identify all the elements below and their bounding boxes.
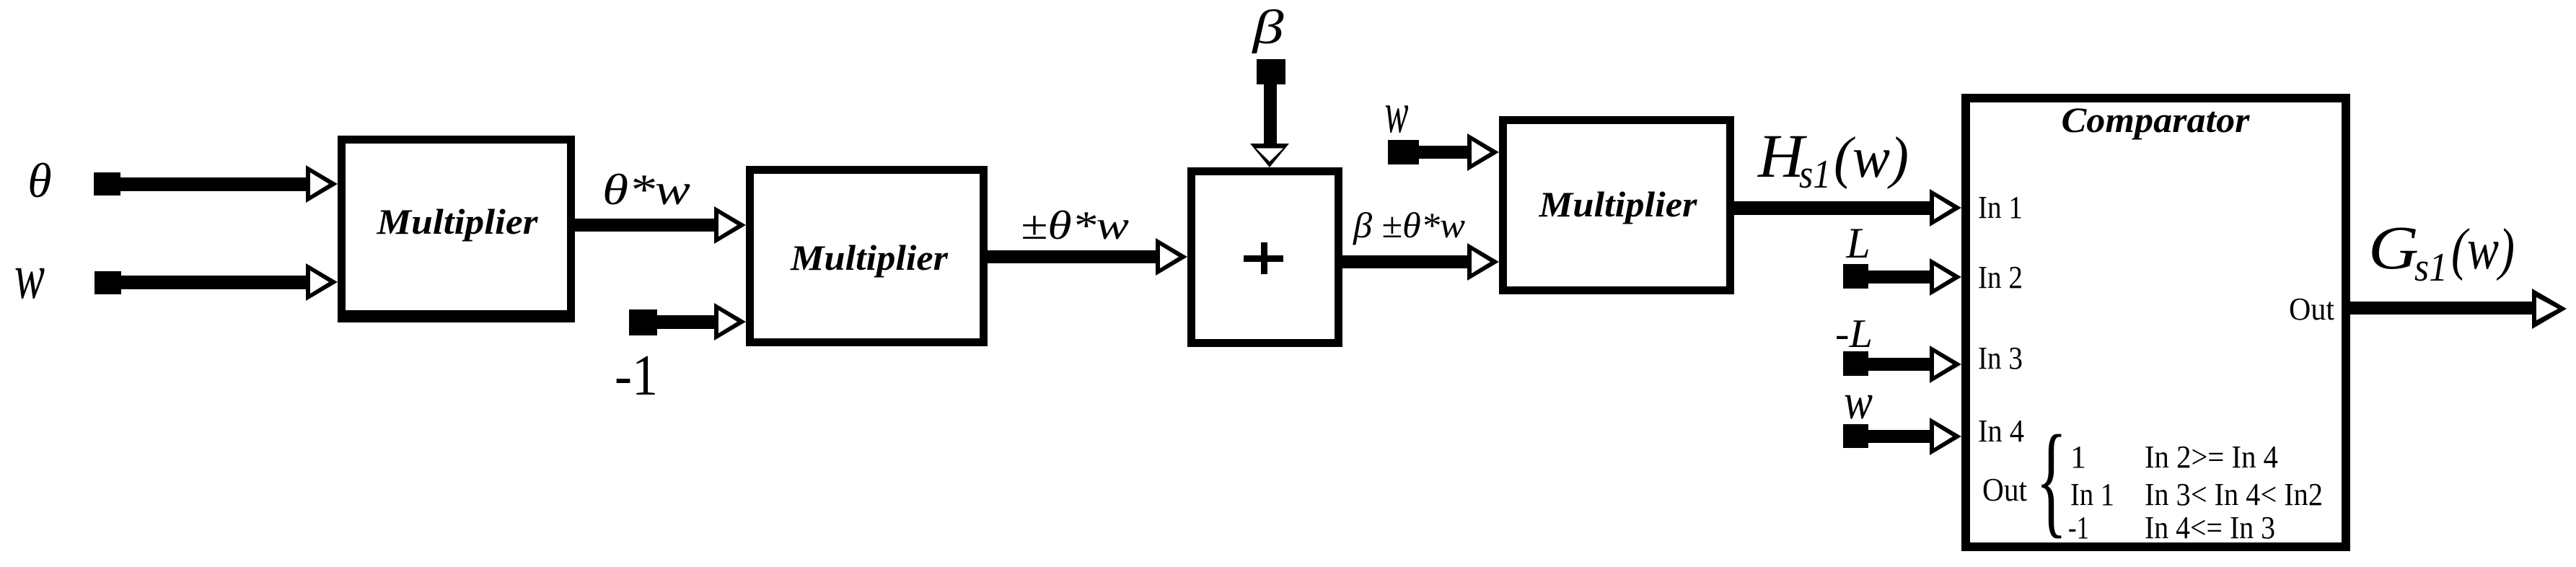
wire M3 output Hs1(w) (1730, 201, 1935, 215)
svg-text:w: w (1844, 374, 1873, 430)
comparator truth table Out label (1982, 471, 2027, 508)
node w (third) input port square (1843, 424, 1868, 448)
node beta input port square (1257, 59, 1285, 84)
svg-text:In 2>= In 4: In 2>= In 4 (2145, 439, 2278, 475)
multiplier M1 bottom edge (338, 310, 575, 322)
wire -L to comparator In 3 (1855, 358, 1931, 371)
svg-text:Comparator: Comparator (2062, 100, 2251, 140)
node w (second) input port square (1388, 140, 1419, 164)
label beta plus-minus theta*w (1353, 205, 1465, 245)
svg-text:Multiplier: Multiplier (376, 201, 538, 242)
svg-text:w: w (1385, 82, 1409, 145)
truth table row 3 condition (2145, 510, 2275, 545)
label Gs1(w) (2368, 213, 2515, 290)
multiplier M2 block (750, 170, 984, 343)
wire beta down to adder (1264, 72, 1277, 148)
arrowhead w into comparator In 4 (1930, 418, 1961, 455)
wire L to comparator In 2 (1855, 271, 1931, 283)
arrowhead plus-minus theta*w into adder (1156, 238, 1187, 276)
svg-text:In 3: In 3 (1978, 340, 2023, 376)
node -1 input port square (629, 309, 657, 335)
arrowhead -L into comparator In 3 (1930, 346, 1961, 383)
pin label Out (2289, 291, 2334, 327)
svg-text:G: G (2368, 213, 2419, 282)
truth table row 1 value (2070, 439, 2086, 475)
wire theta to multiplier M1 (107, 177, 307, 191)
arrowhead theta into M1 (306, 165, 338, 203)
node w (third) label (1844, 374, 1873, 430)
arrowhead L into comparator In 2 (1930, 258, 1961, 296)
wire w to comparator In 4 (1855, 430, 1931, 443)
svg-text:In 4<= In 3: In 4<= In 3 (2145, 510, 2275, 545)
svg-text:In 1: In 1 (1978, 190, 2023, 225)
pin label In 3 (1978, 340, 2023, 376)
wire M1 output theta*w (570, 219, 718, 232)
arrowhead beta into adder (down) (1250, 144, 1289, 167)
arrowhead w into M1 (306, 263, 338, 301)
arrowhead theta*w into M2 (714, 206, 746, 244)
svg-text:-L: -L (1835, 312, 1873, 356)
svg-text:Multiplier: Multiplier (1538, 184, 1697, 224)
arrowhead adder output into M3 (1467, 243, 1499, 281)
label -1 (615, 344, 658, 408)
wire comparator output Gs1(w) (2346, 302, 2536, 315)
svg-text:In 3< In 4< In2: In 3< In 4< In2 (2145, 477, 2323, 512)
svg-text:1: 1 (2070, 439, 2086, 475)
node w (second) label (1385, 82, 1409, 145)
arrowhead Hs1(w) into comparator In 1 (1930, 189, 1961, 227)
label Hs1(w) (1757, 121, 1909, 197)
svg-text:In 1: In 1 (2070, 477, 2114, 512)
node -L label (1835, 312, 1873, 356)
comparator U1 block (1966, 98, 2346, 547)
pin label In 4 (1978, 413, 2024, 449)
node L input port square (1843, 264, 1868, 289)
svg-text:(w): (w) (2451, 218, 2515, 281)
svg-text:w: w (14, 241, 45, 312)
wire M2 output plus-minus theta*w (983, 250, 1161, 263)
node beta label (1251, 1, 1284, 54)
wire adder output beta plus-minus theta*w (1338, 255, 1472, 268)
label plus-minus theta*w (1021, 203, 1129, 248)
node theta label (27, 153, 51, 208)
wire w to multiplier M1 (107, 276, 307, 289)
multiplier M1 block (342, 140, 571, 319)
multiplier M3 block (1503, 120, 1731, 291)
svg-text:In 2: In 2 (1978, 260, 2023, 295)
svg-text:Multiplier: Multiplier (790, 237, 949, 278)
node w label (14, 241, 45, 312)
pin label In 1 (1978, 190, 2023, 225)
svg-text:-1: -1 (615, 344, 658, 408)
node theta input port square (94, 172, 120, 195)
truth table row 2 condition (2145, 477, 2323, 512)
svg-text:±θ*w: ±θ*w (1021, 203, 1129, 248)
svg-text:β: β (1251, 1, 1284, 54)
pin label In 2 (1978, 260, 2023, 295)
arrowhead -1 into M2 (714, 303, 746, 340)
truth table row 2 value (2070, 477, 2114, 512)
comparator truth table brace (2036, 410, 2067, 550)
svg-text:β ±θ*w: β ±θ*w (1353, 205, 1465, 245)
svg-text:Out: Out (2289, 291, 2334, 327)
svg-text:(w): (w) (1834, 126, 1909, 190)
node -L input port square (1843, 351, 1868, 376)
arrowhead w into M3 (1467, 133, 1499, 171)
truth table row 1 condition (2145, 439, 2278, 475)
arrowhead Gs1(w) output (2532, 289, 2567, 329)
wire -1 to multiplier M2 (642, 315, 716, 329)
node w input port square (94, 271, 121, 294)
wire w to multiplier M3 (1403, 146, 1472, 159)
label theta*w (602, 166, 690, 214)
truth table row 3 value (2068, 510, 2089, 545)
svg-text:In 4: In 4 (1978, 413, 2024, 449)
svg-text:θ*w: θ*w (602, 166, 690, 214)
svg-text:s1: s1 (2414, 245, 2448, 290)
svg-text:-1: -1 (2068, 510, 2089, 545)
svg-text:θ: θ (27, 153, 51, 208)
svg-text:Out: Out (1982, 471, 2027, 508)
svg-text:s1: s1 (1799, 152, 1831, 197)
svg-text:L: L (1845, 219, 1870, 267)
svg-text:{: { (2036, 410, 2067, 550)
adder block (1192, 172, 1339, 343)
node L label (1845, 219, 1870, 267)
